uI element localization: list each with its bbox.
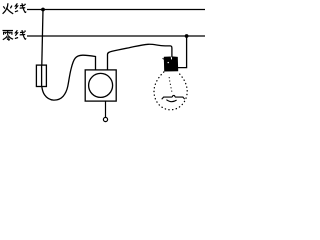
node: junction dot on live line [41, 8, 45, 12]
wire: live line (火线) [27, 9, 205, 11]
glass stem smile [166, 100, 176, 102]
filament right [175, 97, 185, 99]
pull knob [103, 117, 107, 121]
wire: switch right terminal to bulb [108, 44, 172, 70]
wire: through fuse [41, 65, 43, 86]
lamp base left tick [163, 58, 164, 59]
fuse (rectangle with wire through) [36, 65, 46, 86]
wire: live line down to fuse [42, 10, 43, 66]
switch box (pull-cord switch) [85, 70, 116, 101]
pull cord [105, 101, 107, 117]
node: junction dot on neutral line [185, 34, 189, 38]
filament loop [172, 95, 175, 97]
wire: neutral line down to bulb side contact [177, 36, 187, 68]
label 零线 (neutral wire label) [3, 30, 26, 41]
filament [162, 97, 173, 99]
lamp base (screw cap, filled) [164, 57, 177, 71]
lamp glass (dotted outline) [154, 72, 187, 110]
lamp stem (dotted) [169, 78, 172, 94]
label 火线 (live wire label) [3, 3, 26, 14]
lamp base speck [168, 62, 169, 63]
wire: neutral line (零线) [27, 35, 205, 37]
switch circle [89, 73, 113, 97]
wire: fuse to switch left terminal [42, 55, 96, 100]
